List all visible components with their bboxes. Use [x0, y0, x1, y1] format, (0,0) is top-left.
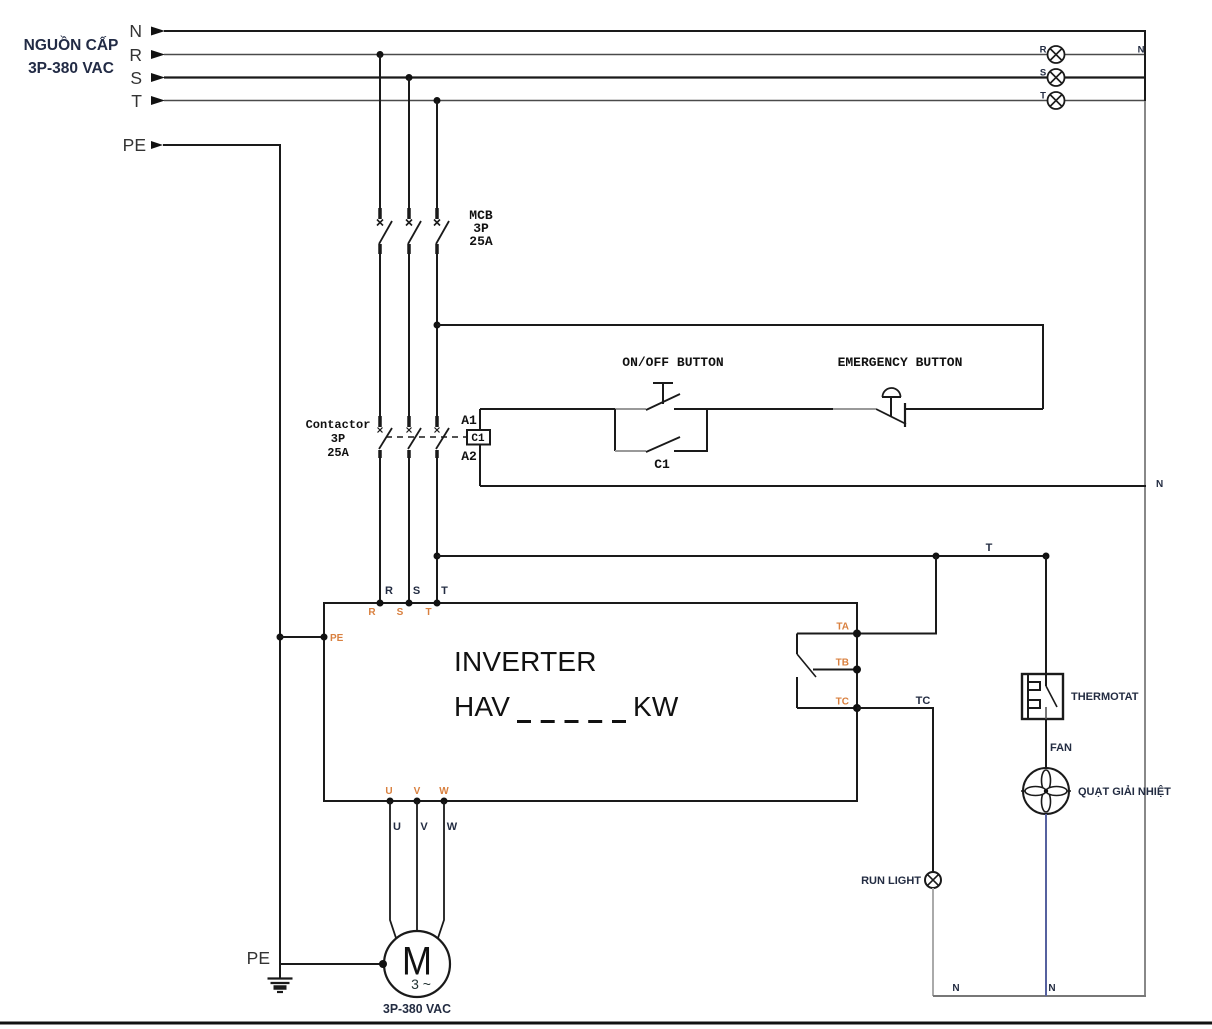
- node terminal W: [441, 798, 448, 805]
- coil C1 of contactor: [467, 430, 490, 445]
- svg-text:N: N: [952, 983, 959, 994]
- svg-text:T: T: [425, 607, 431, 618]
- svg-text:THERMOTAT: THERMOTAT: [1071, 691, 1139, 703]
- node TA: [853, 630, 861, 638]
- svg-text:T: T: [441, 585, 448, 597]
- svg-text:ON/OFF BUTTON: ON/OFF BUTTON: [622, 355, 723, 370]
- wire N bus: [164, 30, 1145, 32]
- wire W to motor: [437, 801, 444, 941]
- svg-text:S: S: [397, 607, 404, 618]
- holding contact C1 branch: [614, 409, 616, 451]
- wire R MCB to contactor: [379, 254, 381, 416]
- wire S contactor to inverter: [408, 458, 410, 603]
- node TB: [853, 666, 861, 674]
- node TA riser junction: [933, 553, 940, 560]
- svg-text:3P-380 VAC: 3P-380 VAC: [28, 60, 114, 77]
- wire between buttons: [707, 408, 833, 410]
- fan QUAT GIAI NHIET: [1023, 768, 1069, 814]
- node control tap on T: [434, 322, 441, 329]
- svg-text:NGUỒN CẤP: NGUỒN CẤP: [24, 36, 119, 54]
- wire thermostat to fan: [1045, 719, 1047, 768]
- svg-text:3P-380 VAC: 3P-380 VAC: [383, 1002, 451, 1016]
- border bottom bar: [0, 1022, 1212, 1025]
- wire PE to motor: [280, 963, 383, 965]
- svg-text:3P: 3P: [331, 432, 345, 446]
- svg-text:T: T: [986, 542, 993, 554]
- svg-text:T: T: [131, 91, 142, 111]
- wire control row right: [905, 408, 1043, 410]
- wire T to thermostat: [1045, 556, 1047, 674]
- svg-text:U: U: [385, 786, 392, 797]
- emergency button contact: [904, 403, 906, 427]
- lamp S indicator: [1048, 69, 1065, 86]
- wire V to motor: [416, 801, 418, 931]
- svg-text:U: U: [393, 821, 401, 833]
- arrow S: [151, 73, 165, 82]
- svg-text:N: N: [1138, 45, 1145, 56]
- svg-text:KW: KW: [633, 691, 679, 722]
- node T branch tap: [434, 553, 441, 560]
- wire T branch: [437, 555, 1046, 557]
- wire control loop top: [437, 325, 1043, 409]
- arrow PE: [151, 141, 163, 149]
- svg-text:FAN: FAN: [1050, 742, 1072, 754]
- svg-text:PE: PE: [123, 135, 146, 155]
- svg-text:V: V: [414, 786, 421, 797]
- node TC: [853, 704, 861, 712]
- svg-text:N: N: [1156, 479, 1163, 490]
- svg-text:R: R: [368, 607, 376, 618]
- node junction S: [406, 74, 413, 81]
- wire R drop to MCB: [379, 55, 381, 209]
- svg-text:W: W: [447, 821, 458, 833]
- breaker MCB pole 2: [406, 208, 421, 254]
- svg-text:R: R: [129, 45, 142, 65]
- arrow N: [151, 27, 165, 36]
- wire below run light: [932, 888, 934, 996]
- wire fan to N blue: [1045, 814, 1047, 996]
- lamp T indicator: [1048, 92, 1065, 109]
- lamp RUN LIGHT: [925, 872, 941, 888]
- lamp R indicator: [1048, 46, 1065, 63]
- svg-text:R: R: [1040, 45, 1047, 56]
- wire coil A1 lead: [479, 409, 481, 430]
- wire TC external: [857, 708, 933, 872]
- svg-text:QUẠT GIẢI NHIỆT: QUẠT GIẢI NHIỆT: [1078, 785, 1171, 798]
- node junction T: [434, 97, 441, 104]
- svg-text:25A: 25A: [327, 446, 349, 460]
- node terminal U: [387, 798, 394, 805]
- svg-text:C1: C1: [654, 457, 670, 472]
- wire T contactor to inverter: [436, 458, 438, 603]
- wire R bus: [164, 54, 1145, 56]
- svg-text:V: V: [420, 821, 428, 833]
- wire T MCB to contactor: [436, 254, 438, 416]
- wire S bus: [164, 76, 1145, 78]
- svg-text:TB: TB: [836, 658, 849, 669]
- svg-text:TC: TC: [916, 695, 931, 707]
- wire PE feed: [163, 145, 280, 964]
- node terminal R: [377, 600, 384, 607]
- svg-text:RUN LIGHT: RUN LIGHT: [861, 875, 921, 887]
- wire PE to inverter: [280, 636, 324, 638]
- wire A2 return to N: [480, 485, 1146, 487]
- wire TA riser: [857, 556, 936, 634]
- ground: [268, 964, 293, 992]
- node junction R: [377, 51, 384, 58]
- svg-text:PE: PE: [330, 633, 344, 644]
- wire S MCB to contactor: [408, 254, 410, 416]
- svg-text:25A: 25A: [469, 234, 493, 249]
- node terminal S: [406, 600, 413, 607]
- wire N vertical right: [1144, 30, 1146, 101]
- inverter U1 box: [324, 603, 857, 801]
- wire S drop to MCB: [408, 78, 410, 209]
- motor M 3~: [384, 931, 450, 997]
- wire R contactor to inverter: [379, 458, 381, 603]
- wire coil A2 lead: [479, 445, 481, 487]
- contactor C1 pole 3: [435, 416, 450, 458]
- svg-text:R: R: [385, 585, 393, 597]
- node thermostat junction: [1043, 553, 1050, 560]
- wire T drop to MCB: [436, 101, 438, 209]
- svg-text:A2: A2: [461, 449, 477, 464]
- arrow T: [151, 96, 165, 105]
- svg-text:INVERTER: INVERTER: [454, 646, 597, 677]
- svg-text:TA: TA: [836, 622, 849, 633]
- node terminal T: [434, 600, 441, 607]
- svg-text:HAV: HAV: [454, 691, 510, 722]
- node PE junction: [277, 634, 284, 641]
- relay contact TA TB TC inside inverter: [797, 634, 857, 709]
- contactor C1 pole 1: [378, 416, 393, 458]
- node terminal V: [414, 798, 421, 805]
- svg-text:Contactor: Contactor: [306, 418, 371, 432]
- svg-text:3 ~: 3 ~: [411, 976, 431, 992]
- svg-text:T: T: [1040, 91, 1046, 102]
- svg-text:A1: A1: [461, 413, 477, 428]
- wire U to motor: [390, 801, 397, 941]
- wire bottom N row: [933, 995, 1146, 997]
- svg-text:EMERGENCY BUTTON: EMERGENCY BUTTON: [838, 355, 963, 370]
- svg-text:S: S: [130, 68, 142, 88]
- emergency button mushroom head: [890, 397, 892, 417]
- svg-text:S: S: [1040, 68, 1046, 79]
- node PE motor: [379, 960, 387, 968]
- svg-text:PE: PE: [247, 948, 270, 968]
- value blank dashes: [517, 720, 626, 723]
- on/off button plunger: [662, 383, 664, 404]
- node PE terminal: [321, 634, 328, 641]
- contactor C1 pole 2: [407, 416, 422, 458]
- svg-text:N: N: [1048, 983, 1055, 994]
- thermostat: [1022, 674, 1063, 719]
- wire T bus: [164, 100, 1145, 102]
- arrow R: [151, 50, 165, 59]
- contactor mechanical link dashed: [386, 436, 466, 438]
- svg-text:W: W: [439, 786, 449, 797]
- svg-text:TC: TC: [836, 697, 849, 708]
- svg-text:N: N: [129, 21, 142, 41]
- on/off button contact: [480, 408, 615, 410]
- svg-text:C1: C1: [471, 433, 485, 445]
- svg-text:S: S: [413, 585, 420, 597]
- breaker MCB pole 3: [434, 208, 449, 254]
- breaker MCB pole 1: [377, 208, 392, 254]
